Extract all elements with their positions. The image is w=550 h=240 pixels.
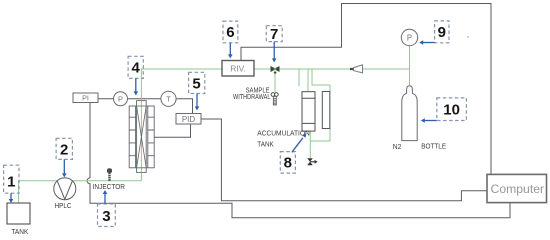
svg-text:WITHDRAWAL: WITHDRAWAL <box>233 92 270 101</box>
svg-text:ACCUMULATION: ACCUMULATION <box>257 129 310 138</box>
svg-text:3: 3 <box>102 208 110 225</box>
svg-text:8: 8 <box>284 155 292 172</box>
svg-text:TANK: TANK <box>257 139 274 148</box>
svg-text:T: T <box>166 94 171 103</box>
svg-text:7: 7 <box>270 26 278 43</box>
svg-text:TANK: TANK <box>11 227 28 236</box>
svg-text:P: P <box>407 33 412 42</box>
svg-text:P: P <box>118 94 123 103</box>
svg-text:N2: N2 <box>393 142 402 151</box>
svg-text:BOTTLE: BOTTLE <box>421 142 446 151</box>
svg-text:HPLC: HPLC <box>55 201 72 210</box>
svg-text:Computer: Computer <box>491 182 545 196</box>
svg-text:9: 9 <box>438 24 446 41</box>
svg-text:PID: PID <box>182 115 196 124</box>
svg-text:INJECTOR: INJECTOR <box>93 182 125 191</box>
svg-text:10: 10 <box>443 102 460 119</box>
svg-text:RIV.: RIV. <box>230 63 246 73</box>
svg-text:6: 6 <box>226 24 234 41</box>
svg-text:5: 5 <box>192 75 200 92</box>
svg-text:1: 1 <box>7 174 15 191</box>
svg-text:2: 2 <box>60 142 68 159</box>
svg-text:PI: PI <box>82 93 89 102</box>
svg-text:4: 4 <box>132 60 141 77</box>
